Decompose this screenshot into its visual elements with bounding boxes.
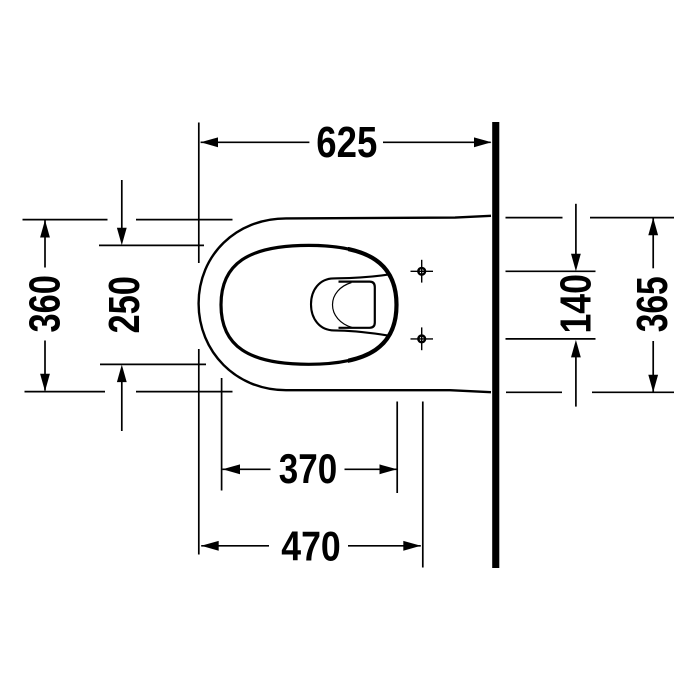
extension line 625 left xyxy=(198,123,200,264)
extension line 250 bottom xyxy=(100,363,206,365)
flush inner D box xyxy=(339,282,375,328)
flush water arc xyxy=(333,283,353,328)
extension line hole 1 xyxy=(506,270,596,272)
svg-text:470: 470 xyxy=(281,522,341,569)
seat rim oval xyxy=(221,245,397,364)
dimension 370 line xyxy=(223,468,271,470)
flush neck outer xyxy=(311,275,389,336)
dimension 360 line xyxy=(44,220,46,268)
extension line 470 right xyxy=(422,402,424,568)
dimension 470 line xyxy=(201,545,269,547)
extension line hole 2 xyxy=(506,338,596,340)
extension line 470 left xyxy=(198,349,200,555)
extension line 370 left xyxy=(221,378,223,491)
svg-text:250: 250 xyxy=(101,276,149,334)
svg-text:625: 625 xyxy=(316,119,377,167)
svg-text:370: 370 xyxy=(279,445,337,492)
svg-text:365: 365 xyxy=(629,276,677,332)
toilet body outline xyxy=(199,216,491,392)
dimension 365 line xyxy=(652,218,654,268)
extension line right top xyxy=(506,217,563,219)
extension line 250 top xyxy=(99,244,204,246)
mounting hole crosshair 2 xyxy=(411,327,434,350)
extension line 360 bottom xyxy=(25,391,106,393)
extension line 370 right xyxy=(396,402,398,494)
extension line 360 top xyxy=(23,219,108,221)
svg-text:360: 360 xyxy=(21,275,69,333)
svg-text:140: 140 xyxy=(553,274,601,334)
wall xyxy=(492,122,499,568)
dimension 250 line xyxy=(121,180,123,232)
mounting hole crosshair 1 xyxy=(411,260,434,283)
extension line right bottom xyxy=(506,391,562,393)
dimension 625 line xyxy=(201,141,310,143)
dimension 140 line xyxy=(575,204,577,258)
